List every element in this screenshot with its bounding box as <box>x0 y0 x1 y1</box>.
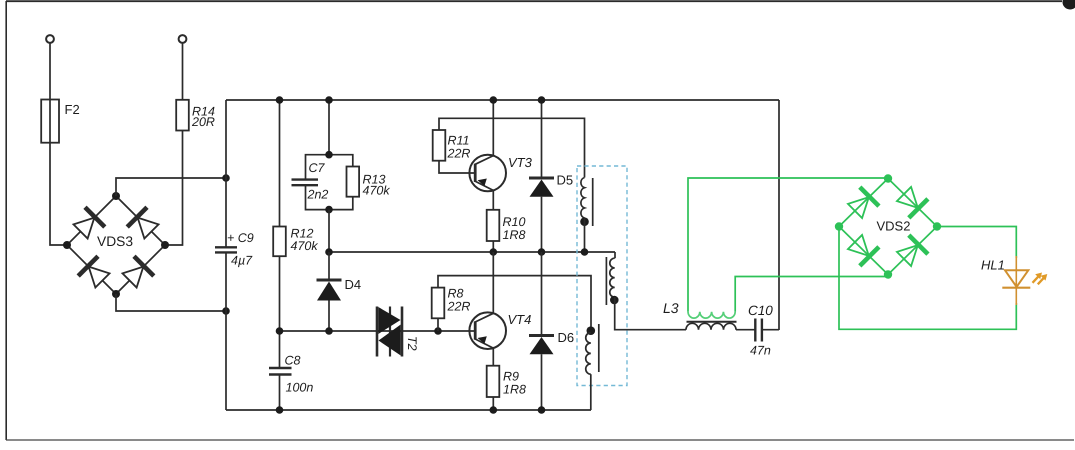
R12/C8 branch vertical <box>279 100 281 227</box>
green wire VDS2 right node to lamp <box>937 227 1016 259</box>
svg-text:R11: R11 <box>448 134 470 148</box>
capacitor C10 plates <box>754 319 756 342</box>
VDS2 diode bottom-right <box>894 235 927 268</box>
svg-text:T2: T2 <box>405 336 419 351</box>
HL1 emission arrows <box>1033 273 1048 285</box>
junction base line x280 <box>276 327 284 335</box>
fuse F2 <box>41 100 59 143</box>
transformer T1 boundary (dashed) <box>577 166 627 386</box>
svg-text:HL1: HL1 <box>981 258 1005 273</box>
wire R9 to bottom rail <box>492 397 494 410</box>
svg-text:R9: R9 <box>503 370 519 384</box>
winding I polarity dot <box>580 217 589 226</box>
transistor VT3 <box>469 155 506 192</box>
resistor R12 <box>273 227 286 257</box>
svg-text:L3: L3 <box>663 300 679 316</box>
VDS2 diode bottom-left <box>845 232 878 265</box>
transformer winding I (top) <box>581 178 585 219</box>
transistor VT4 <box>469 312 506 349</box>
wire R11 top to winding I <box>439 118 585 177</box>
green wire L3 secondary right leg to VDS2 bottom <box>735 277 888 312</box>
wire R11 bottom to VT3 base <box>439 161 475 173</box>
svg-text:4µ7: 4µ7 <box>231 253 253 267</box>
junction base line R8 <box>434 327 442 335</box>
svg-text:D4: D4 <box>345 277 362 292</box>
C7/R13 branch vertical from top rail <box>328 100 330 155</box>
resistor R11 <box>433 130 446 161</box>
diode D5 branch <box>541 100 543 178</box>
svg-text:22R: 22R <box>447 147 471 161</box>
VDS3 diode bottom-right <box>120 256 154 290</box>
svg-text:1R8: 1R8 <box>503 228 526 242</box>
wire winding II to L3 <box>615 297 686 330</box>
diode D6 branch <box>541 252 543 336</box>
middle rail (emitter/collector junction rail) <box>329 251 615 253</box>
input terminal (right) <box>179 35 187 43</box>
VDS3 node dots <box>112 192 120 200</box>
svg-text:+ C9: + C9 <box>227 231 254 245</box>
left DC bus vertical with capacitor C9 gap <box>225 100 227 247</box>
wire VT3 collector to top rail <box>492 100 494 156</box>
resistor R9 <box>487 366 500 397</box>
svg-text:470k: 470k <box>363 184 391 198</box>
L3 secondary winding (green) <box>688 312 735 318</box>
transformer winding II (right) <box>614 252 616 258</box>
wire R8 top to winding III <box>438 276 591 327</box>
diac T2 <box>376 307 379 357</box>
svg-text:470k: 470k <box>291 239 319 253</box>
resistor R8 <box>432 288 445 319</box>
VDS3 diode top-left <box>71 207 105 241</box>
svg-text:1R8: 1R8 <box>503 383 526 397</box>
wire VT3 emitter to R10 <box>492 190 494 209</box>
resistor R14 <box>176 100 189 131</box>
bridge rectifier VDS2 diamond <box>839 179 937 275</box>
junction bottom rail C8 <box>276 406 284 414</box>
wire R10 to middle rail <box>492 241 494 252</box>
wire bridge - output to DC bus <box>116 294 226 311</box>
svg-text:22R: 22R <box>447 299 471 313</box>
diode D4 <box>317 279 342 282</box>
junction top rail R12 <box>276 96 284 104</box>
wire VT4 emitter to R9 <box>492 348 494 366</box>
wire bridge + output to DC bus <box>116 178 226 196</box>
bridge rectifier VDS3 diamond <box>67 196 165 294</box>
svg-text:C8: C8 <box>285 354 301 368</box>
junction C7 top node <box>325 151 333 159</box>
resistor R10 <box>487 210 500 241</box>
svg-text:20R: 20R <box>191 115 215 129</box>
lamp HL1 (LED) <box>1015 256 1017 305</box>
junction middle rail x329 <box>325 248 333 256</box>
VDS2 diode top-right <box>894 184 927 217</box>
right vertical return wire <box>778 100 780 330</box>
VDS2 node dots <box>884 174 892 182</box>
svg-text:C7: C7 <box>309 161 326 175</box>
winding II polarity dot <box>610 296 619 305</box>
svg-text:R8: R8 <box>448 286 464 300</box>
wire VT4 collector to middle rail <box>492 252 494 313</box>
svg-text:100n: 100n <box>286 381 314 395</box>
junction C7 bottom node <box>325 206 333 214</box>
input terminal (left) <box>46 35 54 43</box>
capacitor C9 plates <box>215 246 237 248</box>
transformer winding III (bottom) <box>587 326 596 335</box>
svg-text:D6: D6 <box>558 330 575 345</box>
svg-text:VDS3: VDS3 <box>97 234 133 249</box>
wire L3 to C10 <box>736 329 755 331</box>
capacitor C7 plates <box>292 178 319 180</box>
wire winding III bottom to rail <box>590 374 592 410</box>
svg-text:47n: 47n <box>750 344 771 358</box>
wire D4 to base line <box>328 301 330 332</box>
wire winding I bottom to middle rail <box>584 218 586 252</box>
top supply rail <box>226 99 779 101</box>
svg-text:VDS2: VDS2 <box>877 219 911 234</box>
bottom rail <box>226 409 591 411</box>
C7/R13 parallel loop <box>306 155 353 180</box>
base drive line <box>280 330 475 332</box>
green wire L3 secondary left leg to VDS2 top <box>688 178 888 312</box>
svg-text:VT4: VT4 <box>508 312 532 327</box>
wire R8 bottom to base line <box>437 318 439 331</box>
inductor L3 (black winding) <box>686 323 736 329</box>
VDS3 diode bottom-left <box>78 256 112 290</box>
VDS2 diode top-left <box>845 187 878 220</box>
wire C10 to right return <box>762 329 779 331</box>
wire terminal to F2 and down to bridge <box>50 43 67 245</box>
junction on bus at y178 <box>222 174 230 182</box>
svg-text:R10: R10 <box>503 215 526 229</box>
svg-text:C10: C10 <box>748 303 773 318</box>
wire terminal through R14 down to bridge <box>165 43 183 245</box>
svg-text:VT3: VT3 <box>508 155 533 170</box>
green wire VDS2 left node to bottom <box>839 227 1016 330</box>
capacitor C8 plates <box>269 367 292 369</box>
svg-text:2n2: 2n2 <box>307 188 329 202</box>
VDS3 diode top-right <box>127 207 161 241</box>
wire middle rail to D4 <box>328 252 330 280</box>
svg-text:F2: F2 <box>65 102 80 117</box>
junction base line x329 <box>325 327 333 335</box>
svg-text:D5: D5 <box>557 173 574 188</box>
junction top rail C7 <box>325 96 333 104</box>
junction on bus at y311 <box>222 307 230 315</box>
wire C7 bottom node to middle rail <box>328 210 330 252</box>
resistor R13 <box>347 167 360 197</box>
